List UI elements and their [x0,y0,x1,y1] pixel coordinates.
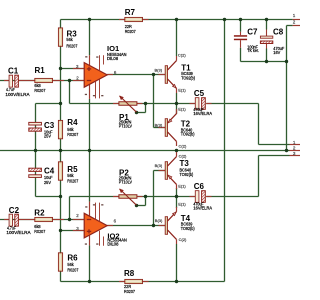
svg-text:E(1): E(1) [178,183,186,188]
svg-text:1: 1 [293,13,296,18]
svg-text:56k: 56k [67,127,74,133]
svg-text:C1: C1 [8,66,19,75]
svg-text:E(1): E(1) [178,107,186,112]
svg-text:R8: R8 [124,269,135,278]
svg-text:TK ker.: TK ker. [247,48,259,53]
svg-text:E(1): E(1) [178,87,186,92]
svg-text:C2: C2 [9,206,20,215]
svg-text:R0207: R0207 [125,29,136,35]
svg-text:E(1): E(1) [178,202,186,207]
svg-text:PT10LV: PT10LV [119,179,132,184]
svg-text:56k: 56k [67,173,74,179]
svg-text:16V: 16V [273,50,280,55]
svg-text:PT10LV: PT10LV [119,123,132,128]
svg-text:C(2): C(2) [178,52,186,57]
svg-text:C8: C8 [273,27,284,36]
svg-text:B(3): B(3) [155,218,163,223]
svg-text:R0207: R0207 [34,229,45,235]
svg-text:2: 2 [293,20,296,25]
svg-text:R1: R1 [35,66,46,75]
svg-text:C(2): C(2) [179,237,187,242]
svg-text:16V/ELRA: 16V/ELRA [193,206,212,211]
svg-text:B(3): B(3) [155,163,163,168]
svg-text:56k: 56k [66,37,73,43]
svg-text:TO92(b): TO92(b) [180,172,194,177]
svg-text:2: 2 [293,146,296,151]
svg-text:R2: R2 [34,209,45,218]
svg-text:R0207: R0207 [66,43,77,49]
svg-text:C(2): C(2) [179,143,187,148]
svg-text:R6: R6 [67,253,78,262]
svg-text:R0207: R0207 [67,178,78,184]
svg-text:R0207: R0207 [34,88,45,94]
svg-text:2: 2 [76,213,79,218]
svg-text:C7: C7 [247,27,258,36]
svg-text:R0207: R0207 [67,267,78,273]
svg-text:TO92(b): TO92(b) [181,226,195,231]
svg-text:C(2): C(2) [179,154,187,159]
svg-text:B(3): B(3) [155,68,163,73]
svg-text:TO92(b): TO92(b) [181,75,195,80]
svg-text:R4: R4 [67,118,78,127]
svg-text:16V/ELRA: 16V/ELRA [193,111,212,116]
svg-text:DIL08: DIL08 [107,241,119,246]
svg-text:25V: 25V [44,134,51,139]
svg-text:3: 3 [293,151,296,156]
svg-text:R7: R7 [125,8,136,17]
svg-text:56k: 56k [67,262,74,268]
svg-text:100V/ELRA: 100V/ELRA [5,92,29,97]
svg-text:C5: C5 [194,89,205,98]
svg-text:100V/ELRA: 100V/ELRA [6,230,30,235]
svg-text:R0207: R0207 [124,289,135,295]
svg-text:C6: C6 [194,182,205,191]
svg-text:6: 6 [114,218,117,223]
svg-text:R5: R5 [67,165,78,174]
svg-text:25V: 25V [44,180,51,185]
svg-text:R0207: R0207 [67,132,78,138]
svg-text:B(3): B(3) [155,123,163,128]
svg-text:TO92(b): TO92(b) [181,132,195,137]
svg-text:DIL08: DIL08 [107,56,119,61]
svg-text:1: 1 [293,140,296,145]
svg-text:22R: 22R [125,24,133,30]
